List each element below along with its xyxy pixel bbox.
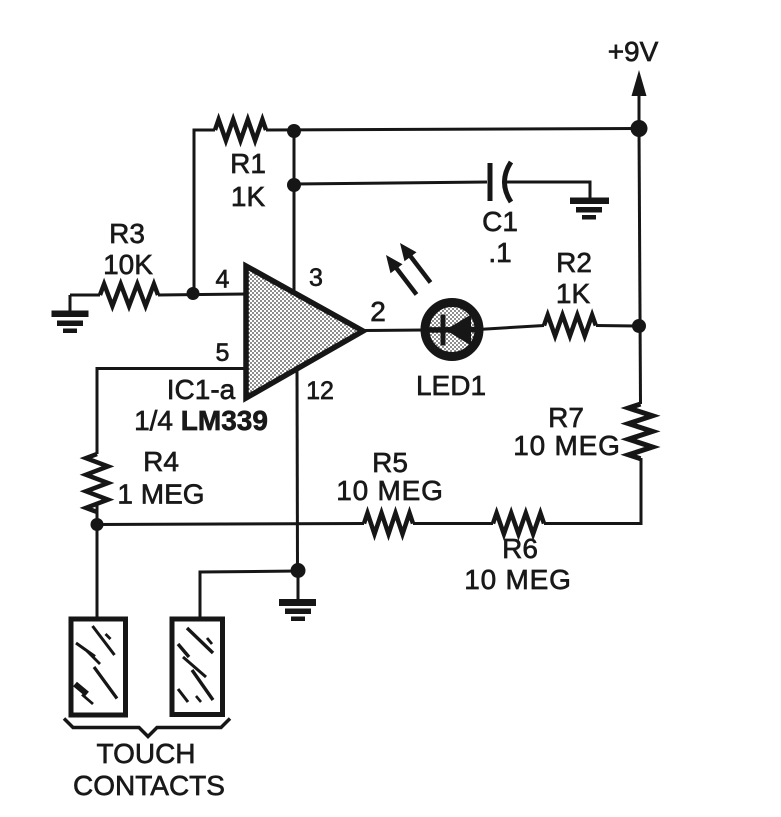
svg-text:LED1: LED1: [416, 370, 486, 401]
node junction: [287, 178, 301, 192]
wire: [158, 294, 246, 295]
node junction pin4: [187, 287, 200, 300]
svg-text:10 MEG: 10 MEG: [336, 475, 444, 506]
svg-text:R4: R4: [143, 446, 179, 477]
svg-text:1K: 1K: [556, 278, 591, 309]
resistor R6: [493, 513, 544, 534]
svg-text:+9V: +9V: [608, 36, 659, 67]
power arrow: [632, 70, 647, 128]
svg-text:1 MEG: 1 MEG: [117, 479, 204, 510]
wire pin3 vertical: [293, 131, 296, 292]
svg-text:10 MEG: 10 MEG: [464, 564, 572, 595]
node junction: [632, 319, 646, 333]
resistor R7: [629, 404, 653, 459]
resistor R5: [364, 513, 413, 534]
svg-text:CONTACTS: CONTACTS: [73, 770, 225, 801]
node junction: [631, 120, 648, 137]
svg-text:IC1-a: IC1-a: [167, 374, 236, 405]
svg-text:10K: 10K: [103, 249, 153, 280]
svg-text:R7: R7: [548, 402, 584, 433]
LED1: [425, 303, 479, 357]
svg-text:5: 5: [216, 339, 230, 367]
wire +9V vertical: [639, 128, 641, 404]
svg-text:10 MEG: 10 MEG: [513, 430, 621, 461]
light arrow 1: [386, 255, 417, 295]
touch contact 2: [172, 619, 223, 715]
ground: [279, 599, 316, 621]
wire pin5: [97, 369, 246, 455]
touch contact 1: [71, 619, 126, 715]
node junction: [287, 124, 301, 138]
wire LED to R2: [478, 326, 544, 330]
wire cap to ground: [506, 182, 590, 199]
wire to contact 2: [200, 571, 298, 617]
svg-text:4: 4: [216, 266, 230, 294]
svg-text:.1: .1: [488, 237, 511, 268]
svg-text:R2: R2: [556, 247, 592, 278]
resistor R2: [544, 315, 596, 336]
node junction: [91, 518, 104, 531]
op-amp U1 triangle: [246, 266, 363, 398]
svg-text:C1: C1: [482, 206, 518, 237]
svg-text:12: 12: [306, 377, 334, 405]
wire second rail: [294, 182, 487, 184]
node junction: [291, 563, 306, 578]
wire pin4: [70, 294, 100, 297]
wire to contact 1: [96, 525, 99, 619]
svg-text:R1: R1: [230, 148, 266, 179]
svg-text:R6: R6: [502, 533, 538, 564]
wire op-amp output to LED: [363, 329, 425, 333]
svg-text:2: 2: [370, 296, 386, 327]
svg-text:R3: R3: [109, 218, 145, 249]
wire: [96, 505, 99, 525]
wire top rail: [194, 130, 215, 293]
light arrow 2: [400, 243, 431, 283]
wire R7 down and bottom rail: [544, 458, 641, 524]
capacitor C1: [490, 162, 511, 202]
ground: [52, 311, 89, 334]
resistor R3: [100, 284, 158, 306]
svg-text:TOUCH: TOUCH: [96, 738, 195, 769]
wire pin12 vertical: [296, 368, 300, 571]
wire to ground: [297, 571, 300, 601]
resistor R4: [86, 454, 108, 512]
svg-text:3: 3: [309, 264, 323, 292]
wire R5 to R4 node: [97, 524, 364, 525]
wire: [596, 324, 639, 328]
wire to ground: [69, 295, 72, 312]
ground: [570, 198, 609, 220]
brace: [64, 719, 230, 737]
svg-text:R5: R5: [372, 447, 408, 478]
svg-text:1K: 1K: [231, 181, 266, 212]
wire: [266, 129, 639, 131]
svg-text:1/4 LM339: 1/4 LM339: [134, 405, 268, 436]
resistor R1: [215, 120, 266, 141]
wire between R6 R5: [413, 522, 493, 525]
